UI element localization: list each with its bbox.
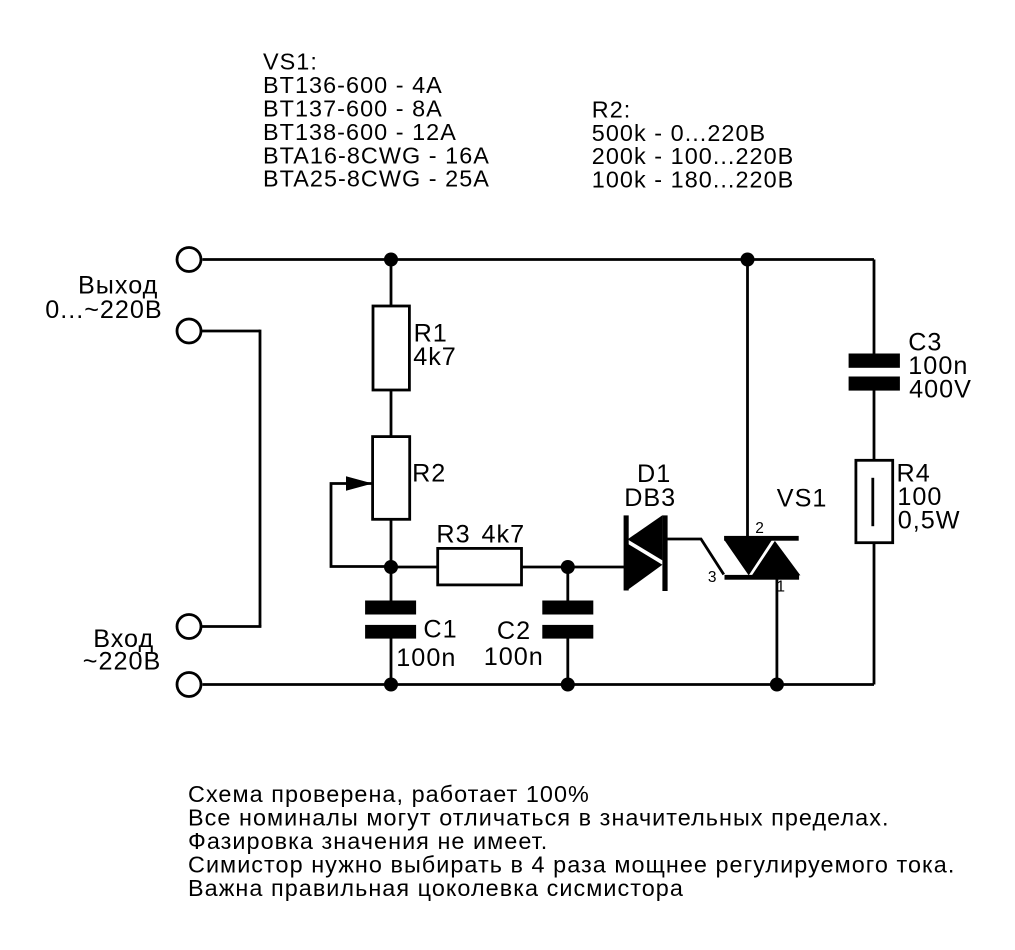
wire bottom rail — [203, 683, 875, 686]
wire diac D1 to triac gate — [667, 539, 724, 575]
wire node B to C2 — [566, 567, 569, 602]
svg-text:1: 1 — [776, 578, 785, 595]
wire top rail to R1 — [390, 260, 393, 307]
wire R1 to R2 — [390, 390, 393, 437]
junction bottom rail at C1 — [384, 678, 398, 692]
note R2 options list — [592, 96, 795, 192]
wire right drop to C3 — [873, 260, 876, 355]
potentiometer R2 — [373, 437, 410, 520]
svg-text:2: 2 — [755, 520, 764, 537]
note verification text — [188, 781, 955, 901]
svg-text:0,5W: 0,5W — [898, 507, 961, 535]
wire node B to diac D1 — [568, 566, 625, 569]
label C2 value — [484, 617, 544, 671]
svg-text:R3: R3 — [436, 521, 470, 549]
junction node B — [561, 560, 575, 574]
junction bottom rail at C2 — [561, 678, 575, 692]
wire C3 to R4 — [873, 390, 876, 461]
svg-text:BTA16-8CWG - 16A: BTA16-8CWG - 16A — [263, 142, 490, 168]
svg-text:VS1: VS1 — [777, 484, 828, 512]
note VS1 types list — [263, 49, 490, 192]
svg-text:100n: 100n — [484, 643, 544, 671]
label R4 value — [897, 459, 961, 534]
svg-text:BT137-600 - 8A: BT137-600 - 8A — [263, 96, 443, 122]
svg-text:BT138-600 - 12A: BT138-600 - 12A — [263, 119, 457, 145]
svg-text:DB3: DB3 — [624, 484, 676, 512]
diac D1 — [624, 515, 668, 591]
terminal output 2 — [177, 319, 201, 343]
svg-text:100n: 100n — [396, 644, 456, 672]
svg-text:0...~220В: 0...~220В — [45, 296, 163, 324]
resistor R1 — [373, 306, 409, 390]
wire output2 to input1 vertical — [259, 330, 262, 627]
label R1 value — [413, 320, 457, 371]
svg-text:R2:: R2: — [592, 96, 632, 122]
svg-text:3: 3 — [708, 569, 717, 586]
svg-text:Выход: Выход — [78, 271, 158, 299]
wire R3 to node B — [522, 566, 568, 569]
junction node A — [384, 560, 398, 574]
potentiometer R2 wiper arrow — [346, 476, 373, 491]
junction top rail at VS1 — [741, 253, 755, 267]
junction top rail at R1 — [384, 253, 398, 267]
svg-text:400V: 400V — [909, 376, 972, 404]
triac VS1 — [724, 536, 800, 580]
svg-text:4k7: 4k7 — [413, 343, 457, 371]
terminal input 2 — [177, 673, 201, 697]
wire node A to R3 — [391, 566, 438, 569]
svg-text:Все номиналы могут отличаться: Все номиналы могут отличаться в значител… — [188, 804, 890, 830]
wire R4 to bottom rail — [873, 543, 876, 685]
resistor R4 — [856, 460, 893, 542]
capacitor C3 — [849, 354, 900, 391]
label C1 value — [396, 615, 457, 672]
wire output2 horizontal — [202, 330, 260, 333]
label R3 value — [436, 521, 525, 549]
wire C1 to bottom rail — [390, 638, 393, 685]
svg-text:Схема проверена, работает 100%: Схема проверена, работает 100% — [188, 781, 590, 807]
capacitor C2 — [542, 601, 593, 639]
svg-text:100k - 180...220В: 100k - 180...220В — [592, 167, 795, 193]
wire R2 to node A — [390, 519, 393, 567]
svg-text:Симистор нужно выбирать в 4 ра: Симистор нужно выбирать в 4 раза мощнее … — [188, 851, 955, 877]
label D1 DB3 — [624, 460, 676, 512]
terminal output 1 — [177, 248, 201, 272]
resistor R3 — [438, 548, 522, 585]
wire C2 to bottom rail — [566, 638, 569, 685]
svg-text:BTA25-8CWG - 25A: BTA25-8CWG - 25A — [263, 166, 490, 192]
svg-text:C1: C1 — [423, 615, 457, 643]
svg-text:R2: R2 — [412, 460, 446, 488]
label C3 value — [908, 329, 972, 404]
resistor R4 inner mark — [871, 478, 874, 526]
node label Вход ~220В — [83, 625, 162, 676]
svg-text:C2: C2 — [497, 617, 531, 645]
svg-text:~220В: ~220В — [83, 647, 162, 675]
wire R2 wiper loop — [331, 484, 391, 567]
wire top rail to triac pin 2 — [746, 260, 749, 540]
wire triac pin 1 to bottom rail — [776, 577, 779, 685]
svg-text:200k - 100...220В: 200k - 100...220В — [592, 143, 795, 169]
svg-text:VS1:: VS1: — [263, 49, 318, 75]
svg-text:BT136-600 - 4A: BT136-600 - 4A — [263, 72, 443, 98]
svg-text:Важна правильная цоколевка сис: Важна правильная цоколевка сисмистора — [188, 875, 684, 901]
wire input1 horizontal — [202, 625, 261, 628]
svg-text:500k - 0...220В: 500k - 0...220В — [592, 120, 766, 146]
node label Выход 0...~220В — [45, 271, 163, 324]
capacitor C1 — [365, 601, 416, 639]
svg-text:Фазировка значения не имеет.: Фазировка значения не имеет. — [188, 828, 548, 854]
junction bottom rail at VS1 pin1 — [770, 678, 784, 692]
wire top rail — [203, 258, 875, 261]
terminal input 1 — [177, 615, 201, 639]
wire node A to C1 — [390, 567, 393, 602]
svg-text:4k7: 4k7 — [482, 521, 526, 549]
